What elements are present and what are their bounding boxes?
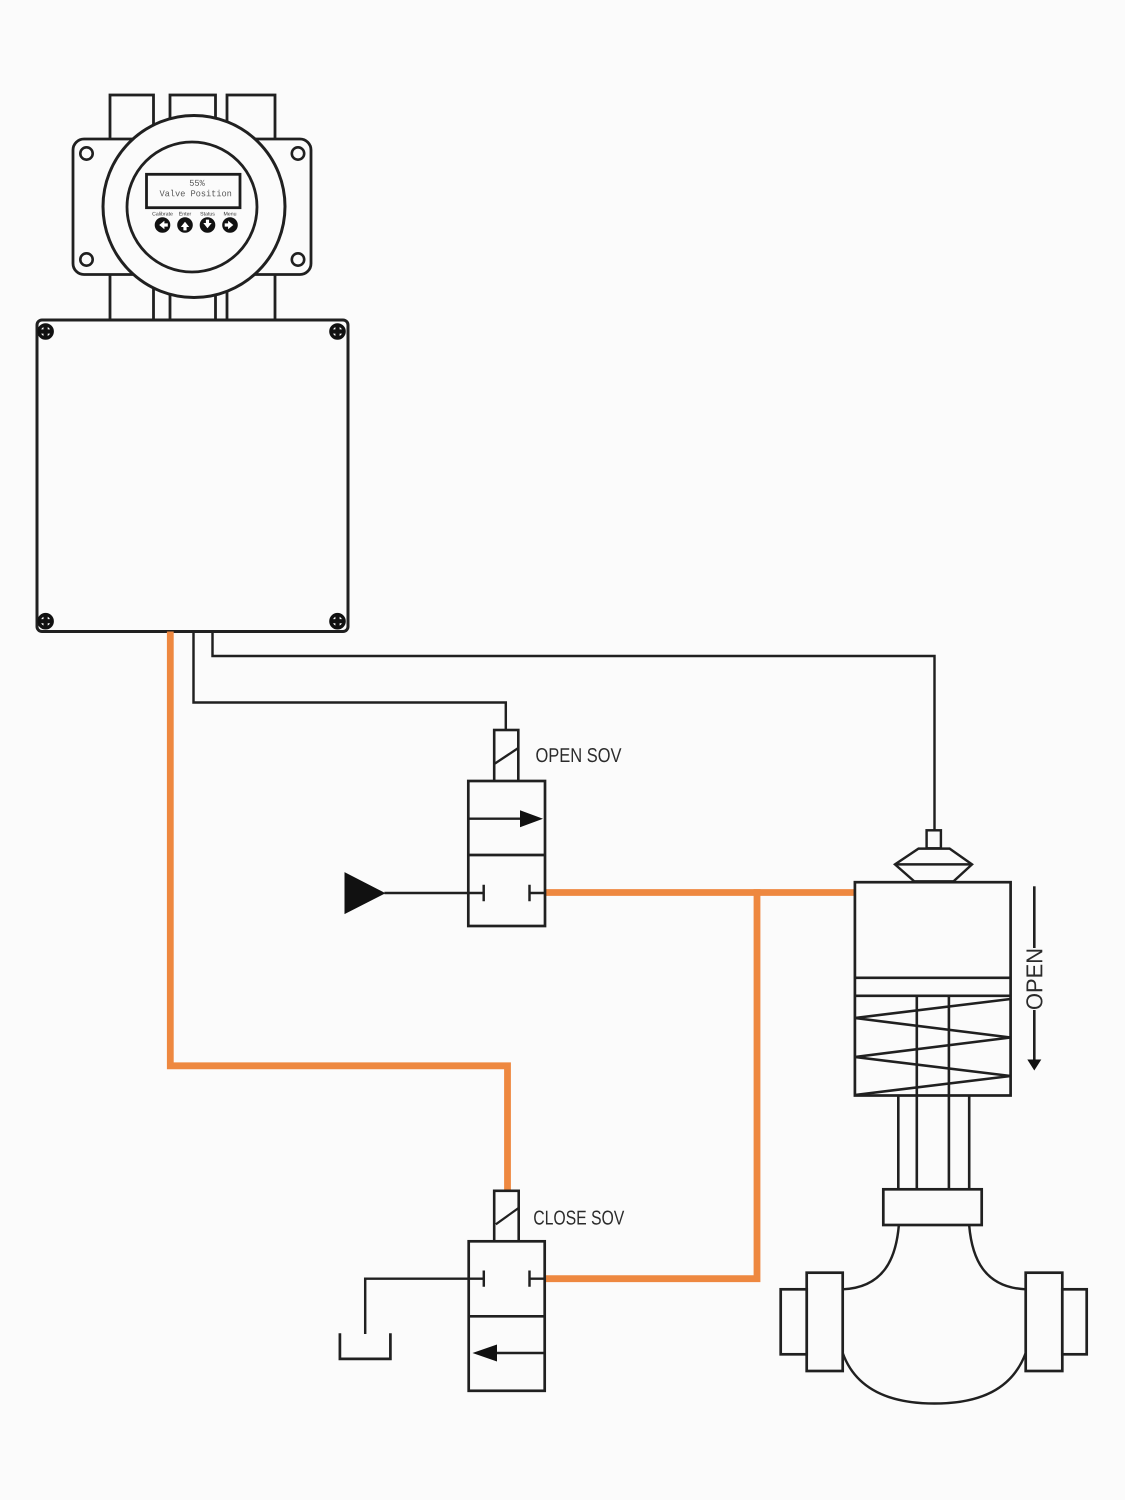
right pipe end cap — [1062, 1289, 1086, 1354]
wire: box to OPEN SOV coil — [194, 632, 506, 731]
label CLOSE SOV — [534, 1211, 624, 1225]
valve body CLOSE SOV — [469, 1241, 545, 1391]
spring — [855, 999, 1011, 1095]
button Calibrate (left arrow) — [155, 217, 171, 233]
OPEN SOV flow arrow — [468, 810, 543, 827]
OPEN SOV port marks — [468, 885, 545, 902]
actuator stem top square — [927, 830, 941, 848]
yoke legs — [898, 1096, 969, 1190]
right pipe flange — [1026, 1273, 1063, 1371]
vent symbol — [340, 1333, 391, 1359]
actuator cylinder body — [855, 882, 1011, 1095]
junction box — [37, 320, 348, 632]
label OPEN SOV — [536, 748, 621, 762]
left pipe flange — [807, 1273, 843, 1371]
button Status (down arrow) — [200, 217, 216, 233]
wire: box to actuator stem sensor — [213, 632, 935, 831]
mounting hole bottom-right — [292, 253, 304, 265]
LCD display — [147, 174, 241, 207]
mounting hole bottom-left — [80, 253, 92, 265]
valve body OPEN SOV — [468, 781, 545, 926]
mounting hole top-right — [292, 147, 304, 159]
OPEN direction arrow — [1026, 886, 1042, 1070]
button Menu (right arrow) — [222, 217, 238, 233]
button labels — [152, 212, 236, 216]
valve body bottom curve — [843, 1353, 1026, 1404]
solenoid coil CLOSE SOV — [494, 1191, 519, 1242]
orange tube: OPEN SOV outlet to actuator — [545, 889, 855, 896]
actuator stem lines — [917, 996, 949, 1190]
positioner inner face circle — [127, 142, 257, 272]
positioner conduit tabs — [110, 95, 275, 325]
mounting hole top-left — [80, 147, 92, 159]
bonnet flange — [883, 1189, 981, 1225]
orange tube: branch to CLOSE SOV outlet — [545, 889, 757, 1279]
button Enter (up arrow) — [177, 217, 193, 233]
screw bottom-left — [39, 615, 52, 628]
CLOSE SOV port marks — [469, 1271, 545, 1287]
valve body neck curves — [843, 1226, 1026, 1290]
positioner mounting plate — [73, 139, 311, 275]
positioner outer housing circle — [103, 116, 285, 298]
left pipe end cap — [781, 1289, 807, 1354]
exhaust line from CLOSE SOV — [365, 1279, 469, 1334]
supply arrow (air source) — [345, 873, 468, 913]
orange tube: box to CLOSE SOV coil — [170, 632, 507, 1191]
screw top-left — [39, 325, 52, 338]
piston plate — [855, 978, 1011, 996]
solenoid coil OPEN SOV — [494, 730, 518, 782]
screw bottom-right — [331, 615, 344, 628]
screw top-right — [331, 325, 344, 338]
actuator top diaphragm hexagon — [895, 849, 972, 882]
CLOSE SOV flow arrow — [473, 1345, 545, 1362]
